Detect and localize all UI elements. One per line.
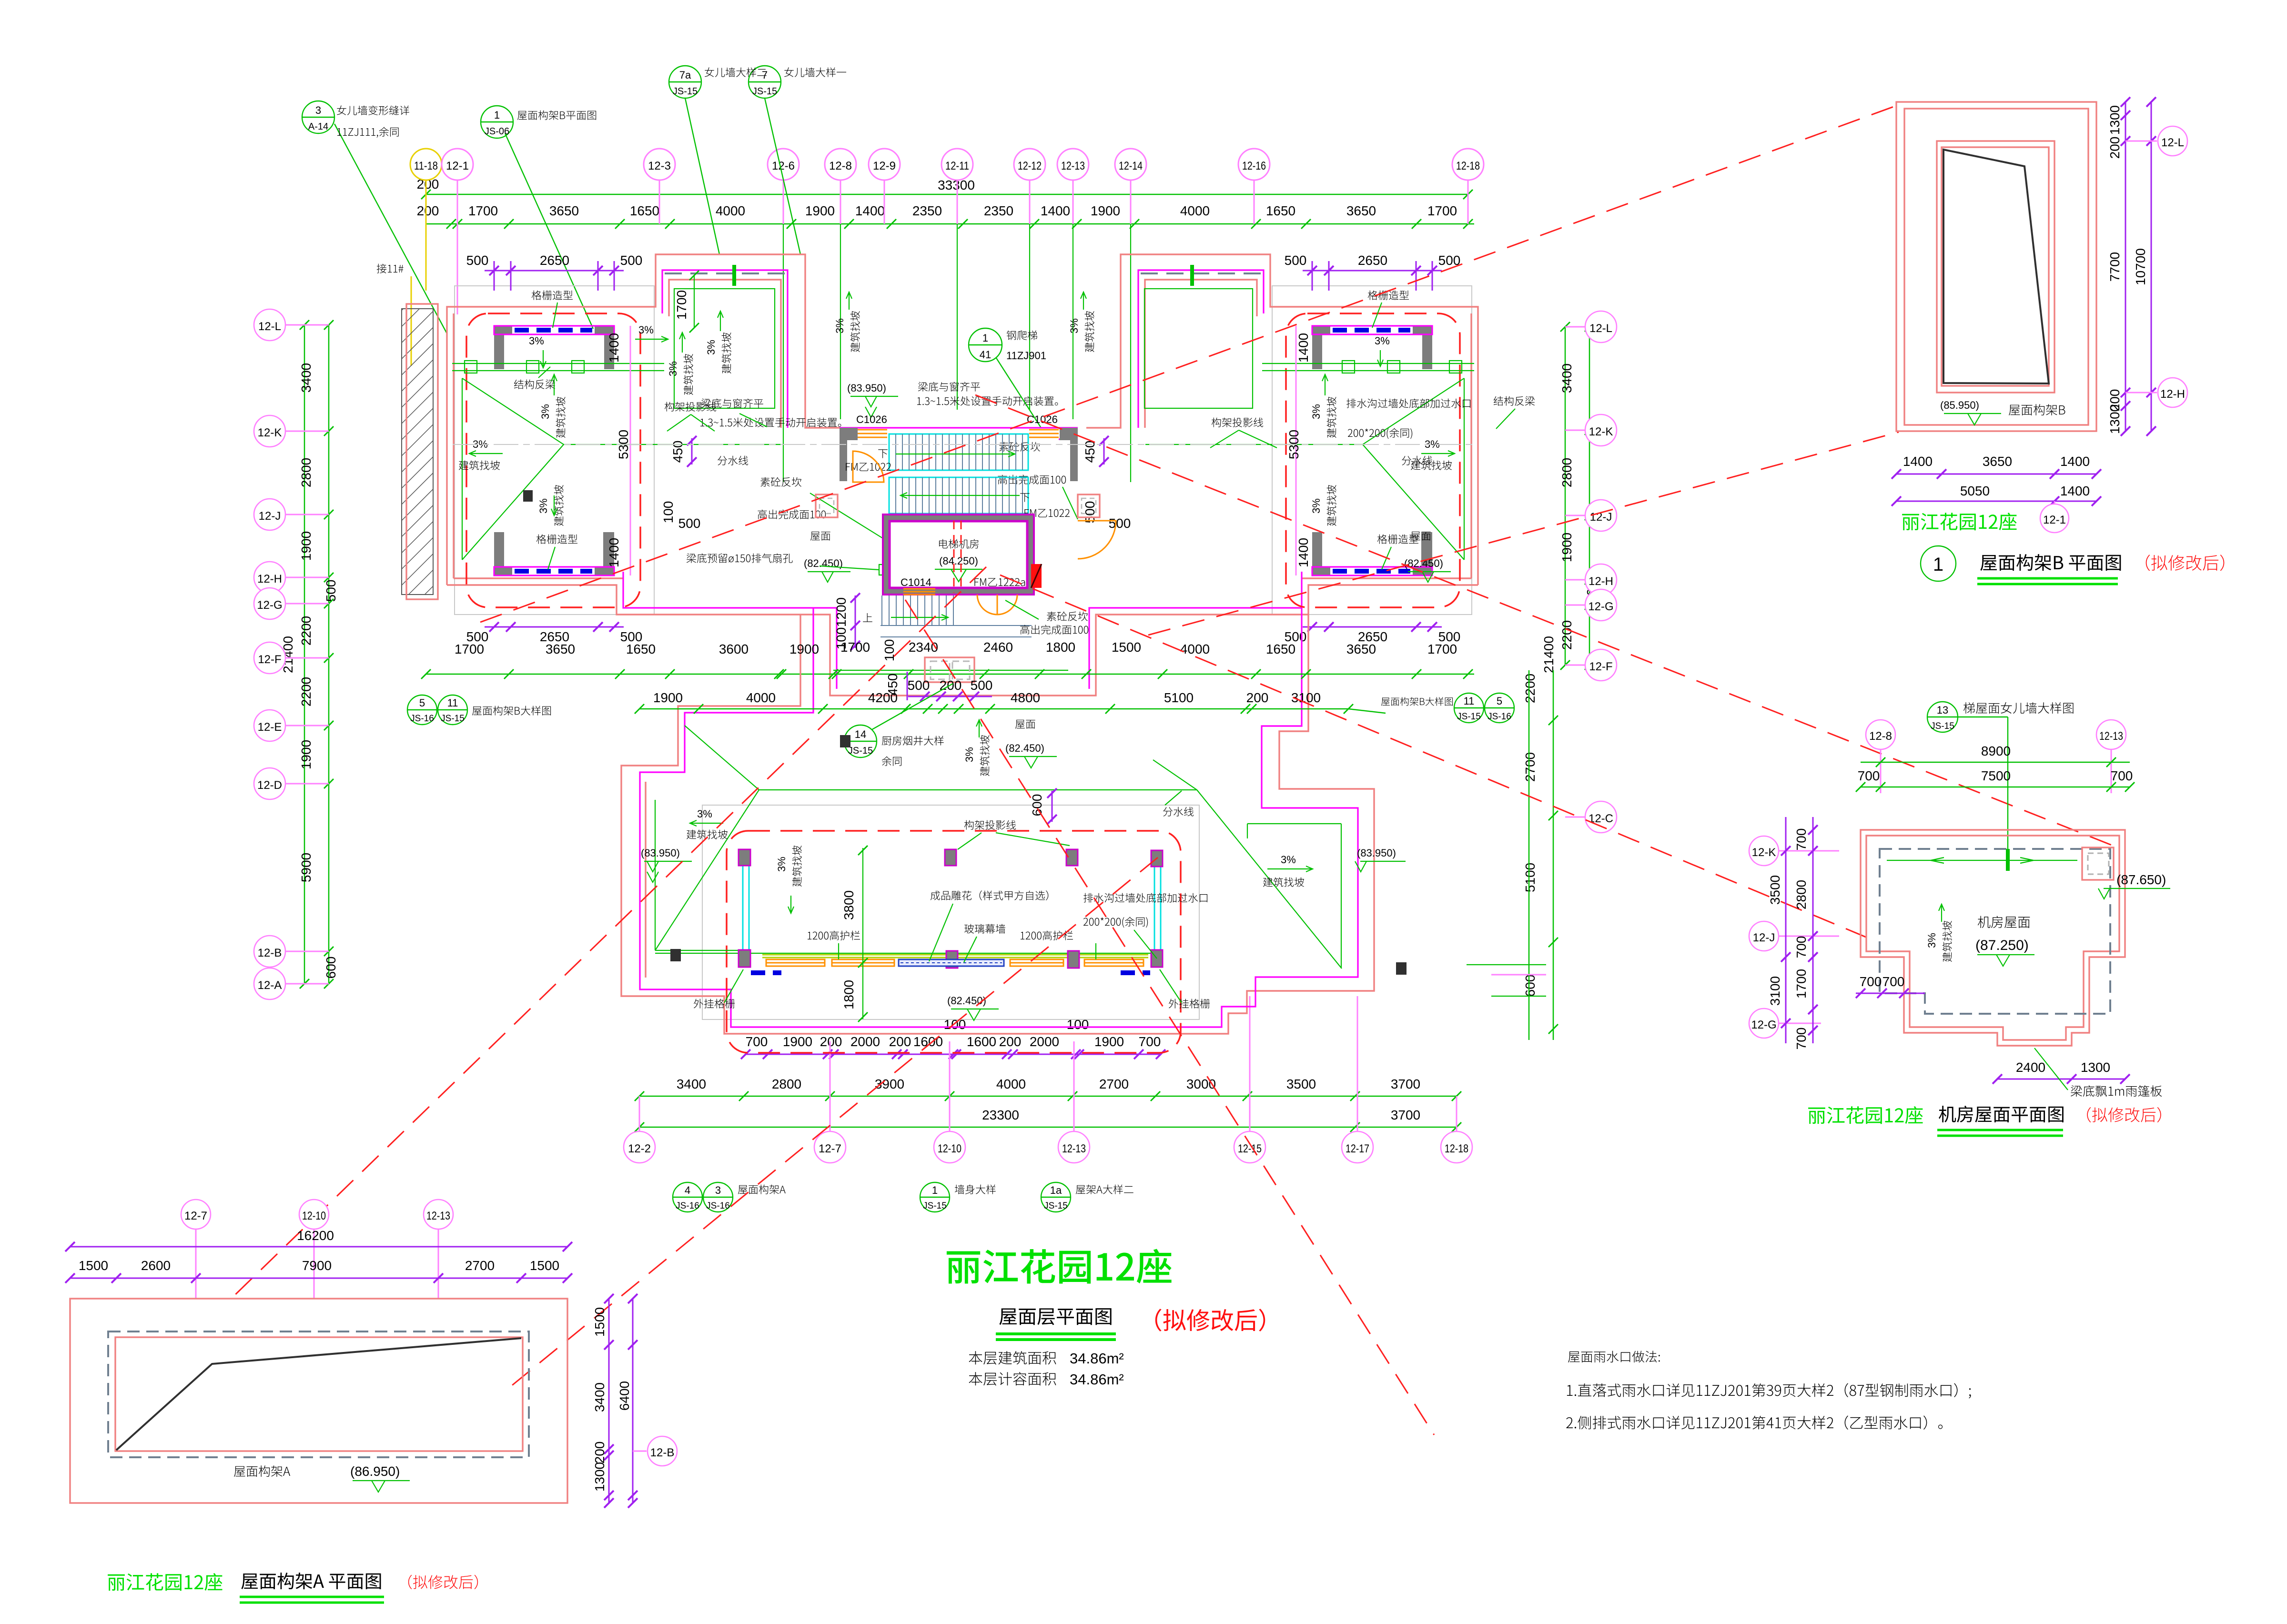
grille columns [739, 849, 1163, 968]
svg-text:3700: 3700 [1391, 1108, 1420, 1122]
leader circle 3/A-14 parapet joint [302, 101, 447, 333]
svg-text:500: 500 [1285, 253, 1307, 268]
svg-text:JS-15: JS-15 [1931, 721, 1954, 731]
bubble stems magenta [426, 180, 1468, 314]
svg-text:3%: 3% [834, 318, 846, 333]
svg-text:16200: 16200 [297, 1228, 334, 1243]
svg-text:700: 700 [746, 1034, 768, 1049]
grille blue dashed [515, 328, 592, 333]
hip roof lines [462, 378, 707, 560]
labels [1978, 916, 2030, 928]
stair flights [889, 434, 1028, 470]
svg-text:3%: 3% [1068, 318, 1080, 333]
svg-text:1500: 1500 [1112, 640, 1141, 655]
svg-text:(84.250): (84.250) [939, 555, 978, 567]
RIGHT BLOCK (mirror) [1312, 326, 1330, 369]
svg-text:7: 7 [762, 69, 768, 81]
blue dashed bits [751, 970, 1150, 975]
svg-text:3%: 3% [776, 857, 788, 872]
red ladder block [1031, 564, 1042, 588]
svg-text:2350: 2350 [912, 203, 942, 218]
svg-text:12-8: 12-8 [1869, 730, 1892, 743]
svg-text:12-16: 12-16 [1242, 160, 1266, 172]
svg-text:2200: 2200 [1559, 620, 1574, 650]
svg-text:C1026: C1026 [1027, 414, 1058, 425]
svg-text:JS-15: JS-15 [1044, 1201, 1068, 1211]
svg-text:34.86m²: 34.86m² [1070, 1350, 1124, 1367]
exhaust hole label [687, 554, 793, 563]
svg-text:(83.950): (83.950) [847, 382, 886, 394]
leader circle 13 [1927, 702, 2008, 853]
left dim lines [1785, 817, 1787, 1043]
svg-text:1900: 1900 [299, 740, 314, 769]
svg-text:(87.650): (87.650) [2116, 872, 2166, 887]
svg-text:1900: 1900 [1094, 1034, 1124, 1049]
svg-text:4000: 4000 [996, 1077, 1026, 1091]
svg-text:3%: 3% [1310, 498, 1322, 514]
svg-text:3400: 3400 [677, 1077, 706, 1091]
svg-text:2700: 2700 [465, 1258, 495, 1273]
svg-text:1: 1 [982, 332, 988, 344]
centerline dash-dot [453, 444, 1475, 445]
svg-text:(83.950): (83.950) [641, 847, 680, 859]
left block green labels [532, 291, 573, 300]
svg-text:12-G: 12-G [1751, 1019, 1776, 1031]
svg-text:1a: 1a [1050, 1184, 1062, 1196]
svg-text:23300: 23300 [982, 1108, 1019, 1122]
labels [234, 1465, 290, 1477]
bottom dims [1896, 474, 2096, 475]
svg-text:700: 700 [2111, 768, 2133, 783]
svg-text:1900: 1900 [299, 531, 314, 561]
svg-text:3%: 3% [529, 335, 544, 347]
svg-text:450: 450 [670, 441, 685, 463]
svg-text:JS-15: JS-15 [441, 714, 465, 724]
svg-text:2200: 2200 [299, 616, 314, 646]
svg-text:C1014: C1014 [901, 576, 931, 588]
magenta verticals up from bubbles [830, 996, 1357, 1096]
title [1808, 1106, 1923, 1124]
green dims row [639, 1096, 1457, 1097]
svg-text:10700: 10700 [2133, 248, 2148, 285]
svg-text:3: 3 [315, 104, 321, 116]
title [108, 1573, 222, 1591]
bottom violet dims [485, 626, 624, 628]
svg-text:11-18: 11-18 [414, 160, 438, 172]
svg-text:1400: 1400 [1296, 333, 1311, 363]
green gutter arrows [1887, 857, 2077, 863]
svg-text:2200: 2200 [1523, 674, 1538, 703]
svg-text:500: 500 [466, 253, 489, 268]
svg-text:12-12: 12-12 [1018, 160, 1042, 172]
axis dim line row [426, 223, 1474, 225]
svg-text:12-L: 12-L [2161, 136, 2184, 149]
red dashed reserved hole [954, 521, 961, 593]
svg-text:JS-16: JS-16 [676, 1201, 699, 1211]
svg-text:700: 700 [1794, 936, 1809, 958]
dims [70, 1246, 567, 1248]
kitchen flue circle 14 [844, 684, 953, 757]
svg-text:2350: 2350 [984, 203, 1013, 218]
svg-text:5050: 5050 [1960, 484, 1990, 498]
svg-text:500: 500 [1109, 516, 1131, 531]
machine room roof outline [1861, 830, 2125, 1046]
chimney shaft between wings [925, 657, 974, 682]
svg-text:200: 200 [1246, 690, 1269, 705]
svg-text:1400: 1400 [1041, 203, 1070, 218]
svg-text:1700: 1700 [1794, 969, 1809, 999]
svg-text:3%: 3% [705, 340, 717, 355]
svg-text:3400: 3400 [1559, 363, 1574, 393]
svg-text:500: 500 [1083, 501, 1097, 524]
svg-text:12-2: 12-2 [628, 1142, 651, 1155]
svg-text:700: 700 [1882, 974, 1905, 989]
svg-text:13: 13 [1937, 704, 1948, 716]
svg-text:14: 14 [855, 728, 866, 740]
svg-text:1650: 1650 [1266, 642, 1295, 656]
projection rect left block [455, 286, 654, 615]
svg-text:500: 500 [620, 253, 643, 268]
second salmon (wall inner) left [645, 782, 646, 978]
svg-text:12-1: 12-1 [2043, 514, 2066, 526]
roof frame B slab outline [1943, 150, 2049, 383]
long centerlines down into plan [783, 224, 1131, 482]
svg-text:4000: 4000 [716, 203, 745, 218]
svg-text:7900: 7900 [302, 1258, 332, 1273]
svg-text:2800: 2800 [1559, 458, 1574, 487]
svg-text:12-A: 12-A [258, 979, 282, 992]
svg-text:12-13: 12-13 [1061, 160, 1085, 172]
svg-text:12-10: 12-10 [938, 1142, 961, 1155]
leader circle 1/JS-06 roof frame B plan [481, 106, 593, 329]
svg-text:1700: 1700 [1427, 642, 1457, 656]
svg-text:1300: 1300 [2107, 105, 2122, 135]
svg-text:1700: 1700 [674, 290, 689, 320]
glass curtain wall [899, 959, 1004, 966]
projection rect right block [1272, 286, 1472, 615]
svg-text:12-G: 12-G [1588, 600, 1613, 613]
right roof-frame-B leader [1348, 693, 1514, 723]
svg-text:100: 100 [882, 639, 897, 662]
cyan mullions [743, 864, 1161, 951]
right dims [608, 1299, 610, 1503]
svg-text:6400: 6400 [617, 1381, 632, 1411]
inner magenta outline [640, 608, 1358, 1027]
svg-text:500: 500 [678, 516, 701, 531]
svg-text:4000: 4000 [746, 690, 776, 705]
svg-text:12-L: 12-L [1589, 322, 1612, 335]
svg-text:2200: 2200 [299, 677, 314, 706]
svg-text:700: 700 [1139, 1034, 1161, 1049]
svg-text:1650: 1650 [1266, 203, 1295, 218]
svg-text:200: 200 [417, 203, 439, 218]
svg-text:3500: 3500 [1768, 875, 1782, 905]
svg-text:2600: 2600 [141, 1258, 171, 1273]
axis dim line 33300 [426, 194, 1468, 195]
svg-text:12-H: 12-H [1589, 575, 1613, 588]
svg-text:12-8: 12-8 [829, 160, 852, 172]
svg-text:700: 700 [1794, 1028, 1809, 1050]
svg-text:700: 700 [1860, 974, 1882, 989]
svg-text:600: 600 [1523, 975, 1538, 997]
svg-text:1700: 1700 [468, 203, 498, 218]
outer rect [70, 1299, 567, 1503]
svg-text:1: 1 [1933, 554, 1943, 575]
svg-text:JS-16: JS-16 [706, 1201, 730, 1211]
svg-text:3650: 3650 [546, 642, 575, 656]
bubbles [181, 1200, 211, 1229]
svg-text:1900: 1900 [783, 1034, 812, 1049]
elevator machine room walls [883, 514, 1034, 595]
svg-text:12-1: 12-1 [446, 160, 469, 172]
FM1222a double door [974, 578, 1025, 586]
svg-text:700: 700 [1858, 768, 1880, 783]
svg-text:A-14: A-14 [308, 121, 328, 132]
total row [639, 1127, 1457, 1128]
svg-text:2650: 2650 [1358, 253, 1387, 268]
svg-text:3500: 3500 [1286, 1077, 1316, 1091]
svg-text:7a: 7a [679, 69, 691, 81]
svg-text:3: 3 [715, 1184, 721, 1196]
right door arc to elevator room [1078, 521, 1116, 559]
svg-text:7700: 7700 [2107, 252, 2122, 282]
svg-text:1400: 1400 [2060, 454, 2090, 469]
violet small dims row [746, 1054, 1161, 1055]
svg-text:2340: 2340 [909, 640, 938, 655]
svg-text:1400: 1400 [855, 203, 885, 218]
svg-text:1900: 1900 [805, 203, 835, 218]
svg-text:5: 5 [1497, 695, 1502, 707]
svg-text:600: 600 [324, 957, 338, 979]
gray-blue dashed parapet line top middle [665, 272, 785, 274]
svg-text:JS-15: JS-15 [1457, 712, 1481, 722]
roof green lines right [1153, 760, 1342, 968]
railing segments orange [766, 959, 1143, 966]
right wing connector stubs [1467, 965, 1546, 996]
svg-text:12-14: 12-14 [1119, 160, 1143, 172]
right dim lines [2125, 102, 2126, 431]
roof level labels [1015, 720, 1035, 729]
svg-text:8900: 8900 [1981, 744, 2011, 758]
svg-text:5900: 5900 [299, 853, 314, 882]
svg-text:500: 500 [971, 678, 993, 693]
right ridge + labels [1145, 444, 1219, 445]
top-right window [2082, 847, 2114, 880]
svg-text:3%: 3% [1310, 404, 1322, 419]
svg-text:1700: 1700 [840, 640, 870, 655]
magenta vertical + 1400 dims [630, 326, 631, 575]
svg-text:1650: 1650 [630, 203, 659, 218]
svg-text:200: 200 [889, 1034, 911, 1049]
svg-text:12-17: 12-17 [1346, 1142, 1369, 1155]
svg-text:3%: 3% [537, 498, 549, 514]
svg-text:C1026: C1026 [856, 414, 887, 425]
yellow-green rail top lines [762, 955, 1148, 958]
small flanking boxes beside stair [816, 494, 1100, 517]
top wall of stairwell [840, 427, 1078, 428]
svg-text:12-F: 12-F [1589, 660, 1612, 673]
ridge line center [707, 444, 781, 445]
svg-text:(83.950): (83.950) [1357, 847, 1396, 859]
svg-text:11: 11 [1464, 695, 1475, 707]
svg-text:12-F: 12-F [258, 653, 281, 666]
inner magenta outline [454, 313, 1471, 578]
svg-text:12-7: 12-7 [819, 1142, 841, 1155]
svg-text:12-B: 12-B [650, 1446, 675, 1459]
svg-text:3650: 3650 [549, 203, 579, 218]
svg-text:4000: 4000 [1180, 642, 1210, 656]
svg-text:12-3: 12-3 [648, 160, 671, 172]
svg-text:12-K: 12-K [1752, 846, 1776, 859]
svg-text:2460: 2460 [983, 640, 1013, 655]
svg-text:1300: 1300 [2081, 1060, 2110, 1075]
bottom-left texts of core area [810, 532, 830, 541]
steel ladder circle [969, 328, 1041, 428]
roof green lines left [655, 726, 1197, 950]
svg-text:2700: 2700 [1523, 752, 1538, 782]
svg-text:2800: 2800 [772, 1077, 801, 1091]
svg-text:JS-15: JS-15 [848, 746, 873, 756]
svg-text:1300: 1300 [592, 1462, 607, 1492]
svg-text:100: 100 [661, 501, 676, 524]
svg-text:200: 200 [820, 1034, 842, 1049]
svg-text:1900: 1900 [1559, 533, 1574, 562]
top leader circles: 7a / 7 parapet details [669, 66, 800, 254]
svg-text:12-B: 12-B [258, 947, 282, 959]
svg-text:12-9: 12-9 [873, 160, 896, 172]
svg-text:3650: 3650 [1346, 203, 1376, 218]
svg-text:4200: 4200 [868, 690, 898, 705]
frame A slab line [116, 1338, 521, 1450]
C1026 windows [858, 430, 1059, 437]
svg-text:1700: 1700 [455, 642, 484, 656]
svg-text:3%: 3% [1281, 854, 1296, 866]
svg-text:12-13: 12-13 [1062, 1142, 1086, 1155]
svg-text:1400: 1400 [607, 333, 621, 363]
svg-text:450: 450 [1083, 441, 1097, 463]
svg-text:1400: 1400 [607, 538, 621, 567]
svg-text:3900: 3900 [875, 1077, 904, 1091]
svg-text:2000: 2000 [850, 1034, 880, 1049]
hatched existing building strip [402, 309, 433, 595]
lower dim row under blocks [455, 642, 1457, 656]
svg-text:12-G: 12-G [257, 599, 282, 612]
svg-text:12-L: 12-L [258, 320, 281, 333]
outer salmon outline [621, 615, 1374, 1034]
svg-text:1300: 1300 [2107, 404, 2122, 434]
bottom parapet walls [494, 532, 512, 575]
svg-text:JS-06: JS-06 [485, 126, 509, 137]
svg-text:3%: 3% [539, 404, 551, 419]
svg-text:4800: 4800 [1011, 690, 1040, 705]
svg-text:JS-16: JS-16 [410, 714, 434, 724]
svg-text:500: 500 [324, 580, 338, 602]
svg-text:600: 600 [1030, 794, 1044, 817]
svg-text:11: 11 [447, 697, 458, 709]
svg-text:12-10: 12-10 [302, 1210, 326, 1222]
svg-text:3400: 3400 [592, 1382, 607, 1412]
svg-text:5100: 5100 [1164, 690, 1194, 705]
svg-text:12-18: 12-18 [1456, 160, 1480, 172]
svg-text:5: 5 [419, 697, 425, 709]
svg-text:12-6: 12-6 [772, 160, 795, 172]
svg-text:200: 200 [999, 1034, 1022, 1049]
svg-text:1900: 1900 [1091, 203, 1120, 218]
svg-text:11ZJ901: 11ZJ901 [1006, 350, 1046, 362]
svg-text:1500: 1500 [79, 1258, 108, 1273]
svg-text:1: 1 [494, 109, 500, 121]
svg-text:3650: 3650 [1983, 454, 2012, 469]
svg-text:1900: 1900 [653, 690, 683, 705]
red dashed frame [727, 831, 1181, 1053]
svg-text:12-K: 12-K [258, 426, 282, 439]
svg-text:JS-15: JS-15 [673, 86, 698, 97]
bubbles [624, 1096, 1472, 1163]
svg-text:1700: 1700 [1427, 203, 1457, 218]
svg-text:2000: 2000 [1030, 1034, 1059, 1049]
svg-text:3%: 3% [697, 808, 712, 820]
top dims [1861, 762, 2130, 763]
title [1902, 513, 2016, 530]
svg-text:21400: 21400 [1541, 636, 1556, 673]
lower stair flight [880, 595, 1032, 637]
svg-text:3%: 3% [667, 361, 679, 376]
svg-text:200: 200 [592, 1442, 607, 1464]
annotation texts [931, 890, 1048, 900]
lower right dim lines [1528, 670, 1530, 1040]
svg-text:(85.950): (85.950) [1940, 399, 1979, 411]
curb label under [1047, 612, 1088, 621]
svg-text:4: 4 [685, 1184, 690, 1196]
leader circles 5/11 roof frame B detail [407, 695, 467, 725]
centerline dash-dot [453, 444, 1475, 445]
svg-text:1500: 1500 [592, 1307, 607, 1337]
grille labels [694, 999, 735, 1009]
svg-text:12-D: 12-D [257, 779, 282, 792]
svg-text:(86.950): (86.950) [350, 1464, 400, 1479]
svg-text:12-13: 12-13 [2099, 730, 2123, 743]
top parapet walls [494, 326, 512, 369]
svg-text:2400: 2400 [2016, 1060, 2045, 1075]
svg-text:2650: 2650 [540, 253, 569, 268]
svg-text:3%: 3% [1375, 335, 1390, 347]
axis bubbles [410, 149, 1484, 180]
svg-text:12-H: 12-H [2160, 388, 2185, 401]
concrete curb labels right of stair [999, 442, 1040, 452]
svg-text:3600: 3600 [719, 642, 749, 656]
svg-text:12-11: 12-11 [945, 160, 969, 172]
svg-text:41: 41 [980, 349, 991, 361]
svg-text:3%: 3% [963, 747, 975, 762]
svg-text:3%: 3% [638, 324, 654, 336]
svg-text:3650: 3650 [1346, 642, 1376, 656]
svg-text:7500: 7500 [1981, 768, 2011, 783]
svg-text:1500: 1500 [530, 1258, 559, 1273]
projection rect [702, 805, 1199, 1019]
svg-text:JS-16: JS-16 [1488, 712, 1511, 722]
svg-text:1400: 1400 [1296, 538, 1311, 567]
concrete curb labels left [760, 477, 801, 487]
waterline + frame labels [1163, 807, 1194, 817]
svg-text:(82.450): (82.450) [1005, 742, 1044, 754]
svg-text:1800: 1800 [1046, 640, 1075, 655]
svg-text:12-E: 12-E [258, 721, 282, 734]
yellow link 接11# [377, 264, 404, 273]
svg-text:1200: 1200 [834, 597, 849, 627]
svg-text:12-K: 12-K [1589, 425, 1613, 438]
small drain boxes on plan [523, 490, 1407, 975]
svg-text:12-J: 12-J [1753, 931, 1775, 944]
